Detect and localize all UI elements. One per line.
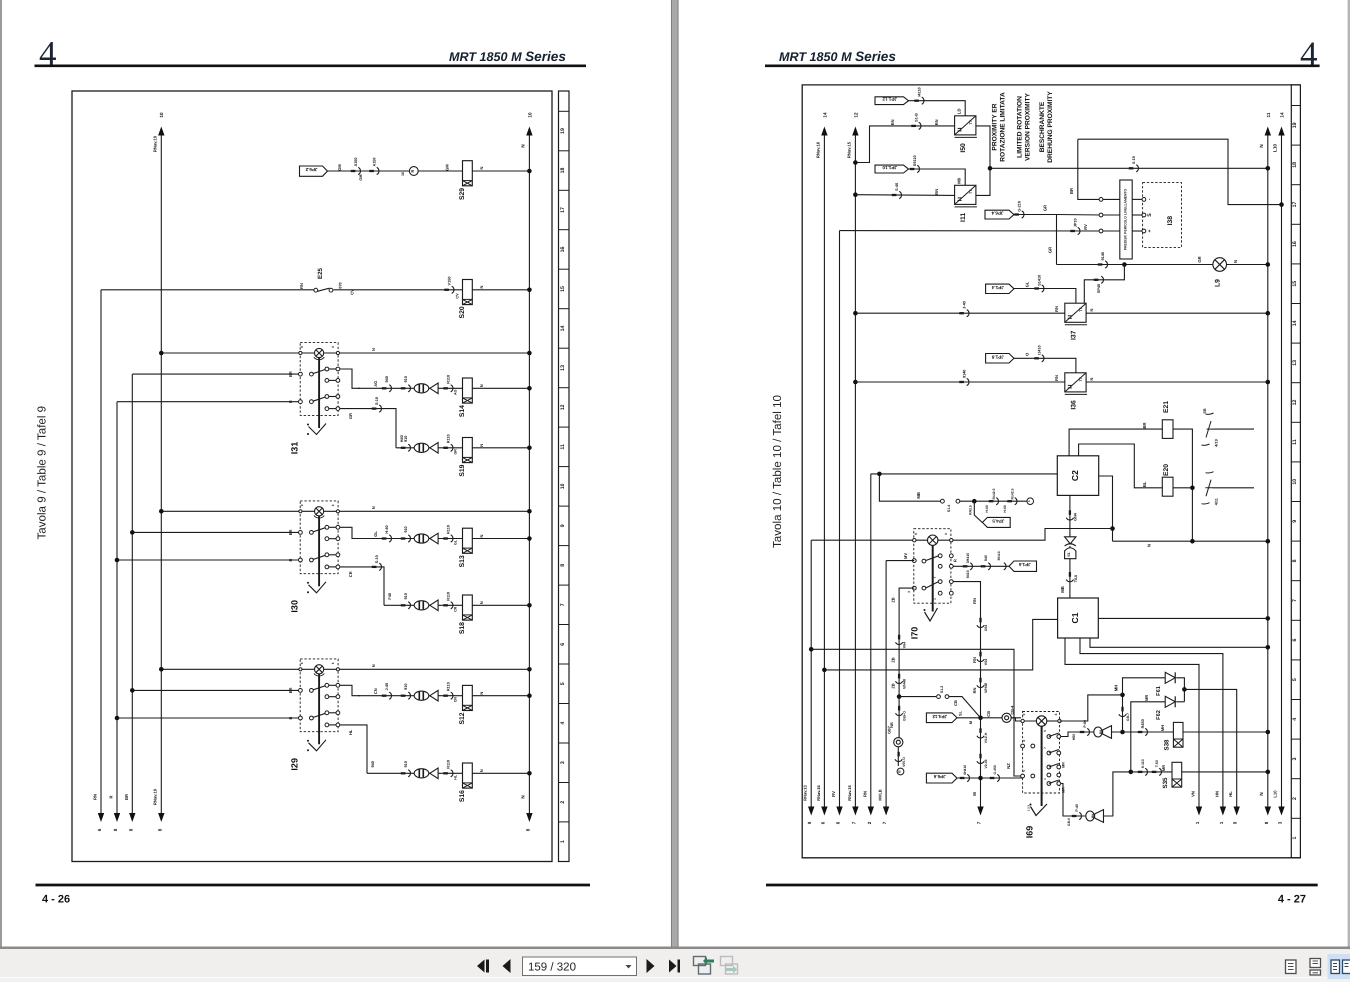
node N bus right page (1267, 131, 1269, 807)
connector pair 6H410 (960, 777, 965, 779)
svg-text:8: 8 (560, 564, 566, 567)
wire I36 rail (855, 381, 1064, 383)
svg-text:9140: 9140 (1101, 252, 1105, 260)
connector JP4.5 (974, 501, 982, 522)
svg-text:3: 3 (560, 761, 566, 764)
wire chain S19 (396, 447, 529, 449)
connector pair M 5 (979, 754, 981, 759)
svg-text:AG: AG (373, 381, 378, 387)
page ref 4/11 (1202, 472, 1214, 504)
svg-text:TAA: TAA (1074, 574, 1078, 582)
svg-text:RN: RN (862, 791, 867, 797)
node N bus left page (528, 131, 530, 814)
junction RNav.16 rail (822, 668, 827, 673)
svg-text:HL: HL (348, 729, 353, 735)
wire I30 BR row (132, 531, 298, 533)
junction S14 N bus (527, 386, 532, 391)
arrow down MVLB 7 (883, 807, 889, 816)
connector pair R110 (443, 447, 448, 449)
svg-text:6H410: 6H410 (963, 765, 967, 775)
svg-text:MRT 1850 M Series: MRT 1850 M Series (449, 49, 566, 64)
svg-text:RNav.16: RNav.16 (816, 784, 821, 800)
switch box I31 (300, 343, 338, 416)
svg-text:GB-0: GB-0 (1067, 818, 1071, 826)
connector pair R110 (443, 604, 448, 606)
svg-text:RN: RN (972, 688, 977, 694)
lamp L9 (1213, 258, 1227, 272)
svg-text:C2: C2 (1070, 470, 1080, 481)
arrow down RNav.15 7 (852, 807, 858, 816)
svg-text:910: 910 (404, 376, 408, 382)
wire E20 row (1079, 444, 1163, 488)
svg-text:JP6.6: JP6.6 (933, 774, 945, 779)
svg-text:J-40: J-40 (963, 301, 967, 309)
svg-text:4: 4 (39, 34, 57, 73)
svg-text:CV: CV (350, 289, 355, 295)
connector pair P80 (1080, 731, 1085, 733)
svg-text:2: 2 (560, 801, 566, 804)
svg-text:VN: VN (1191, 791, 1196, 797)
junction L9 row (1122, 262, 1127, 267)
operating lever I30 (318, 516, 320, 586)
svg-text:S-10: S-10 (375, 397, 379, 405)
junction BR I30 (130, 530, 135, 535)
svg-text:RN: RN (972, 598, 977, 604)
wire RNav.13 vertical (810, 540, 812, 807)
svg-text:RN: RN (1054, 375, 1059, 381)
wire horn B9 up to MR (1104, 772, 1131, 816)
svg-text:RN2.5: RN2.5 (969, 505, 973, 515)
page number box 159 / 320 (523, 957, 637, 976)
svg-text:9: 9 (560, 524, 566, 527)
junction M node (978, 716, 983, 721)
svg-text:N: N (371, 348, 376, 351)
svg-text:940: 940 (385, 376, 389, 382)
junction R I29 (115, 716, 120, 721)
svg-text:9-110: 9-110 (1141, 759, 1145, 768)
svg-text:RN: RN (890, 119, 895, 125)
svg-text:AG: AG (454, 389, 458, 395)
wire RN vertical right page (870, 474, 872, 807)
wire BR to I38 (1078, 139, 1103, 199)
left page header rule (35, 65, 587, 68)
device B S19 (414, 443, 438, 454)
button next view disabled (721, 957, 738, 975)
junction E20 drop (1190, 486, 1195, 491)
operating lever I69 (1041, 726, 1043, 806)
window right edge (1348, 0, 1350, 947)
svg-text:RNav.13: RNav.13 (803, 784, 808, 800)
wire I30 R row (117, 559, 299, 561)
connector pair H10 (401, 695, 406, 697)
svg-text:S12: S12 (459, 712, 466, 724)
wire C1 to HN (1080, 638, 1223, 807)
svg-text:N: N (479, 769, 484, 772)
window left edge (0, 0, 2, 947)
arrow down M 7 (977, 807, 983, 816)
svg-text:S13: S13 (459, 555, 466, 567)
wire rail RNav.16 to C1 (824, 619, 1057, 670)
svg-text:CB: CB (986, 711, 991, 717)
svg-text:DREHUNG PROXIMITY: DREHUNG PROXIMITY (1047, 91, 1054, 163)
wire R vertical (116, 402, 118, 814)
contacts I29 row R (299, 716, 303, 720)
connector pair H10 (401, 772, 406, 774)
svg-text:GR: GR (1197, 256, 1202, 262)
connector JP6.2 (300, 166, 328, 176)
svg-text:1 2 3: 1 2 3 (1027, 804, 1031, 811)
switch box I69 (1023, 712, 1060, 794)
svg-text:910: 910 (404, 526, 408, 532)
connector JP6.4 (985, 210, 1014, 219)
device B S14 (414, 383, 438, 394)
svg-text:CN: CN (454, 697, 458, 703)
svg-text:BL: BL (1142, 481, 1147, 487)
svg-text:LIMITED ROTATION: LIMITED ROTATION (1017, 96, 1024, 158)
connector pair R110 (443, 537, 448, 539)
wire MV row (886, 560, 914, 562)
wire C1 to N bus lower (1090, 638, 1268, 647)
svg-text:9: 9 (300, 504, 304, 506)
junction MH node (1120, 693, 1125, 698)
relay S19 (463, 438, 473, 463)
svg-text:E25: E25 (317, 267, 324, 279)
svg-text:L9: L9 (1215, 279, 1222, 287)
svg-text:8: 8 (113, 828, 118, 831)
svg-text:GB7: GB7 (888, 726, 892, 734)
wire R row to JP1.6 (953, 565, 1009, 567)
proximity sensor I50 (955, 116, 977, 138)
svg-text:GM: GM (359, 174, 363, 180)
svg-text:MB: MB (1060, 586, 1065, 593)
right schematic frame (802, 85, 1300, 858)
svg-text:JP4.12: JP4.12 (932, 714, 947, 719)
wire I31 to chain2 (340, 409, 397, 448)
svg-text:1: 1 (1027, 500, 1031, 502)
svg-text:F40: F40 (388, 593, 392, 600)
svg-text:13: 13 (1292, 360, 1298, 366)
wire C1 to VN (1065, 638, 1199, 807)
relay S16 (463, 763, 473, 788)
svg-text:H50: H50 (1072, 734, 1076, 741)
wire E21 row (1069, 429, 1162, 456)
lamp I69 (1036, 716, 1046, 726)
connector JP4.12 (926, 713, 957, 723)
svg-text:CV: CV (456, 293, 460, 299)
svg-text:RV: RV (831, 791, 836, 797)
junction RNav.15 I37 (853, 311, 858, 316)
wire I29 to chain2 (340, 725, 368, 773)
svg-text:8: 8 (525, 828, 530, 831)
wire M vertical (953, 582, 980, 807)
svg-text:GL: GL (454, 539, 458, 545)
svg-text:1: 1 (1219, 821, 1224, 824)
svg-text:9: 9 (807, 821, 812, 824)
wire JP1.12 to I50 (909, 101, 966, 116)
svg-text:JP4.5: JP4.5 (992, 518, 1004, 523)
svg-text:HN: HN (1214, 791, 1219, 797)
relay S12 (463, 685, 473, 710)
wire chain S16 (367, 772, 529, 774)
button continuous view (1310, 959, 1321, 976)
svg-text:8: 8 (1264, 821, 1269, 824)
svg-text:4 - 26: 4 - 26 (42, 894, 70, 906)
svg-text:I50: I50 (960, 143, 967, 153)
wire I69 lamp out to MH node (1060, 695, 1123, 721)
svg-text:RN: RN (1054, 306, 1059, 312)
svg-text:-: - (1147, 198, 1153, 200)
junction S35 N bus (1266, 770, 1271, 775)
svg-text:MH: MH (1114, 685, 1119, 692)
arrow down N 8 (1265, 807, 1271, 816)
junction N rail E21 (1190, 539, 1195, 544)
wire E25 rail (101, 289, 314, 291)
svg-text:5: 5 (560, 682, 566, 685)
svg-text:GR: GR (348, 413, 353, 419)
svg-text:7: 7 (977, 821, 982, 824)
svg-text:RN: RN (934, 189, 939, 195)
svg-text:Tavola 9 / Table 9 / Tafel 9: Tavola 9 / Table 9 / Tafel 9 (36, 406, 49, 540)
svg-text:11: 11 (1292, 439, 1298, 445)
wire I69 lamp rail jog (1011, 718, 1036, 721)
connector pair R110 (443, 695, 448, 697)
svg-text:S16: S16 (459, 790, 466, 802)
junction S13 N bus (527, 536, 532, 541)
svg-text:3: 3 (1292, 757, 1298, 760)
node RNav.19 bus (160, 131, 162, 814)
svg-text:L10: L10 (1273, 790, 1278, 798)
horn B9 (1086, 810, 1104, 823)
junction C1 lower N bus (1266, 645, 1271, 650)
svg-text:C1: C1 (1070, 612, 1080, 623)
junction L9 N bus (1266, 262, 1271, 267)
svg-text:5: 5 (1022, 770, 1026, 772)
svg-text:I1410: I1410 (1038, 345, 1042, 355)
wire I50 I11 to N bus (976, 126, 990, 195)
svg-text:VERSION PROXIMITY: VERSION PROXIMITY (1025, 93, 1032, 161)
svg-text:N: N (479, 285, 484, 288)
wire I31 R row (117, 401, 299, 403)
svg-text:R: R (109, 795, 114, 798)
svg-text:T-60: T-60 (1155, 760, 1159, 767)
svg-text:870: 870 (339, 282, 343, 288)
connector pair H-40 (382, 537, 387, 539)
svg-text:RN: RN (934, 119, 939, 125)
wire diode node to HL (1184, 689, 1236, 807)
svg-text:V64: V64 (984, 659, 988, 665)
svg-text:BR: BR (124, 794, 129, 800)
svg-text:19: 19 (1292, 122, 1298, 128)
left page footer rule (36, 884, 591, 887)
svg-text:MRT 1850 M Series: MRT 1850 M Series (779, 49, 896, 64)
arrow down R 8 (114, 813, 120, 822)
earth symbol GB7 (894, 738, 903, 747)
svg-text:S-40: S-40 (895, 183, 899, 191)
svg-text:4: 4 (1292, 718, 1298, 721)
svg-text:N: N (479, 444, 484, 447)
svg-text:V/12-H: V/12-H (984, 732, 988, 743)
svg-text:ZB: ZB (891, 597, 896, 602)
contacts I30 row BR (299, 531, 303, 535)
connector pair M 1 (979, 618, 981, 623)
connector pair V55O (897, 752, 899, 757)
svg-text:M: M (972, 792, 977, 796)
svg-text:R: R (952, 559, 957, 562)
svg-text:9410: 9410 (966, 570, 970, 578)
svg-text:X64: X64 (984, 625, 988, 631)
contacts I69 rows (1021, 744, 1025, 748)
svg-text:R142.5: R142.5 (992, 488, 996, 499)
svg-text:N: N (479, 384, 484, 387)
operating lever I70 (932, 545, 934, 611)
right page header rule (765, 65, 1320, 68)
svg-text:MH: MH (1160, 725, 1165, 731)
svg-text:10: 10 (1292, 479, 1298, 485)
svg-text:7: 7 (560, 603, 566, 606)
svg-text:BR: BR (1069, 188, 1074, 194)
svg-text:M: M (969, 721, 973, 724)
module I38 dashed box (1143, 183, 1182, 248)
junction top rail N bus (527, 169, 532, 174)
connector pair 940 (981, 565, 986, 567)
svg-text:V/H48: V/H48 (903, 679, 907, 689)
svg-text:GN4: GN4 (1074, 512, 1078, 521)
svg-text:NZ: NZ (1006, 763, 1011, 769)
svg-text:RNav.19: RNav.19 (153, 788, 158, 805)
svg-text:R110: R110 (447, 592, 451, 601)
arrow down RN 2 (868, 807, 874, 816)
wire chain S14 (358, 387, 529, 389)
connector pair R142.5 a (989, 500, 994, 502)
switch E25 (314, 288, 318, 292)
wire L9 row (1057, 264, 1268, 266)
connector arc 39110 (1004, 563, 1006, 570)
horn B8 (1094, 726, 1112, 739)
svg-text:CR: CR (348, 571, 353, 577)
svg-text:14: 14 (560, 325, 566, 331)
connector pair ZB 1 (898, 635, 900, 640)
wire N rail bottom (1113, 540, 1268, 542)
svg-text:P-80: P-80 (1083, 720, 1087, 728)
svg-text:4: 4 (1022, 740, 1026, 742)
arrow up RNav.15 12 (852, 127, 858, 136)
svg-text:3H410: 3H410 (966, 553, 970, 564)
wire JP1.10 to I11 (909, 169, 966, 185)
svg-text:1: 1 (1292, 837, 1298, 840)
valve symbol (1065, 537, 1076, 546)
svg-text:R450: R450 (1141, 719, 1145, 728)
resistor E20 (1162, 477, 1173, 496)
svg-text:CN: CN (373, 688, 378, 694)
left schematic frame (72, 91, 552, 862)
relay S35 (1172, 762, 1182, 787)
junction N rail bus (1266, 539, 1271, 544)
wire I69 to horn B8 (1061, 732, 1094, 737)
wire I30 to chain1 (340, 527, 361, 538)
svg-text:S18: S18 (459, 622, 466, 634)
svg-text:5: 5 (1292, 678, 1298, 681)
svg-text:17: 17 (560, 207, 566, 213)
lamp I70 (928, 535, 938, 545)
junction RNav.15 I36 (853, 380, 858, 385)
module C2 (1057, 456, 1098, 496)
svg-text:RNav.15: RNav.15 (847, 141, 852, 158)
svg-text:S20: S20 (459, 306, 466, 318)
arrow down RNav.16 6 (821, 807, 827, 816)
junction S16 N bus (527, 771, 532, 776)
toolbar background (0, 947, 1350, 950)
junction RNav.13 rail (809, 647, 814, 652)
connector pair H10 (401, 537, 406, 539)
connector pair 6-19 (1129, 167, 1134, 169)
svg-text:9: 9 (1292, 520, 1298, 523)
device S1 (1065, 548, 1076, 559)
svg-text:5: 5 (1043, 730, 1047, 732)
svg-text:Tavola 10 / Table 10 / Tafel 1: Tavola 10 / Table 10 / Tafel 10 (771, 395, 784, 548)
svg-text:9: 9 (300, 662, 304, 664)
svg-text:BESCHRANKTE: BESCHRANKTE (1039, 101, 1046, 152)
svg-text:V64: V64 (903, 642, 907, 648)
lamp R (409, 167, 418, 176)
wire I31 BR row (132, 373, 298, 375)
junction N bus sensors (1266, 166, 1271, 171)
svg-text:8: 8 (1292, 559, 1298, 562)
svg-text:6: 6 (836, 821, 841, 824)
svg-text:MVLB: MVLB (878, 789, 883, 800)
svg-text:F62: F62 (1156, 710, 1162, 720)
arrow up N 10 (526, 127, 532, 136)
wire S35 row (1131, 771, 1268, 773)
relay S13 (463, 528, 473, 553)
svg-text:7: 7 (882, 821, 887, 824)
svg-text:GM: GM (337, 164, 342, 171)
svg-text:V55-O: V55-O (902, 757, 906, 767)
resistor E21 (1162, 420, 1173, 439)
svg-text:GR: GR (1048, 247, 1053, 253)
svg-text:HL: HL (1228, 791, 1233, 797)
button facing pages view selected (1328, 954, 1350, 979)
proximity sensor I11 (955, 185, 977, 207)
connector pair H10 (401, 447, 406, 449)
svg-text:13: 13 (560, 365, 566, 371)
connector JP1.4 (986, 284, 1014, 293)
arrow down L10 3 (1278, 807, 1284, 816)
svg-text:CR: CR (454, 606, 458, 612)
svg-text:S19: S19 (459, 464, 466, 476)
module C1 (1058, 598, 1099, 638)
svg-text:15: 15 (1292, 281, 1298, 287)
svg-text:4 - 27: 4 - 27 (1278, 894, 1306, 906)
svg-text:M9: M9 (957, 177, 962, 183)
wire JP1.4 to I37 (1014, 289, 1076, 304)
junction S12 N bus (527, 693, 532, 698)
svg-text:1: 1 (560, 840, 566, 843)
junction L10 link (1279, 202, 1284, 207)
svg-text:I69: I69 (1025, 826, 1035, 839)
svg-text:F61: F61 (1156, 686, 1162, 696)
contacts I70 row ZB (912, 586, 916, 590)
svg-text:P-40: P-40 (1075, 804, 1079, 812)
wire zigzag GR (1084, 265, 1124, 314)
junction I37 N bus (1266, 311, 1271, 316)
arrow up L10 14 (1278, 127, 1284, 136)
svg-text:I36: I36 (1070, 400, 1077, 410)
svg-text:PREDISP. PERICOLO LIVELLAMENTO: PREDISP. PERICOLO LIVELLAMENTO (1123, 188, 1127, 250)
svg-text:3: 3 (1278, 821, 1283, 824)
svg-text:B9: B9 (1091, 814, 1095, 818)
junction S38 N bus (1266, 730, 1271, 735)
svg-text:V/H48: V/H48 (984, 683, 988, 693)
